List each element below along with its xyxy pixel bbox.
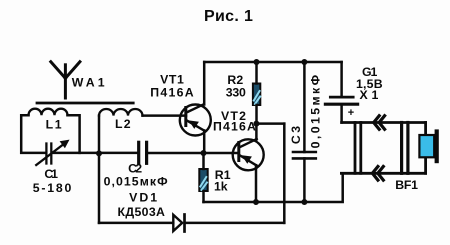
wire L2 to VT1 base: [143, 114, 187, 117]
top right rail: [342, 121, 426, 124]
L1 tank loop (left coil box): [21, 115, 79, 153]
bottom rail with diode: [99, 222, 284, 225]
earphone BF1 body: [402, 123, 426, 174]
wire C2 to VT2 base: [148, 152, 238, 155]
wire VT1 emitter down: [203, 131, 206, 154]
connector bars: [355, 123, 361, 174]
wire R2 top: [255, 62, 258, 84]
inductor L2 coil: [99, 109, 143, 116]
ferrite rod core: [37, 102, 133, 105]
junction dot VT2 collector node: [253, 121, 259, 127]
wire R1 top: [202, 153, 205, 169]
resistor R2: [253, 84, 260, 106]
top supply rail: [204, 61, 341, 64]
svg-text:WA1: WA1: [72, 75, 105, 89]
connector X1 chevron bottom: [372, 167, 383, 181]
wire C3 top: [303, 62, 306, 152]
transistor VT2: [233, 139, 264, 170]
svg-text:+: +: [348, 107, 354, 119]
bottom right rail: [341, 172, 425, 175]
svg-text:L2: L2: [115, 117, 131, 131]
svg-text:Рис. 1: Рис. 1: [204, 8, 253, 25]
wire VT1 collector up: [203, 62, 206, 105]
BF1 right plate: [435, 129, 439, 163]
wire VD1 leg down: [283, 124, 286, 223]
junction dot C3 bottom node: [301, 199, 307, 205]
resistor R1: [199, 169, 207, 191]
diode VD1: [173, 215, 184, 232]
junction dot VT2 emitter node: [253, 199, 259, 205]
wire L2 down leg: [98, 116, 101, 223]
junction dot top rail C3: [301, 59, 307, 65]
inductor L1 coil: [29, 109, 68, 115]
svg-text:BF1: BF1: [395, 178, 418, 192]
svg-text:C1: C1: [44, 167, 58, 181]
capacitor C2: [139, 142, 147, 163]
svg-text:5-180: 5-180: [33, 181, 72, 195]
svg-text:0,015мкФ: 0,015мкФ: [309, 74, 323, 148]
svg-text:1k: 1k: [214, 180, 228, 194]
svg-text:КД503A: КД503A: [117, 205, 165, 219]
antenna WA1: [51, 62, 80, 98]
svg-text:330: 330: [226, 85, 246, 99]
wire VT2 emitter down: [255, 165, 258, 202]
svg-text:П416A: П416A: [150, 85, 194, 99]
BF1 piezo element: [419, 135, 434, 157]
svg-text:VD1: VD1: [129, 191, 157, 205]
connector X1 chevron top: [374, 116, 385, 130]
svg-text:П416A: П416A: [213, 120, 256, 134]
transistor VT1: [180, 104, 211, 135]
wire C3 bottom: [303, 158, 306, 202]
wire mid rail left (box to C2): [80, 152, 137, 155]
wire R2 bottom to collector node: [255, 105, 258, 124]
variable capacitor C1: [36, 143, 65, 165]
wire VT2 collector up: [255, 124, 258, 140]
battery G1: [325, 62, 357, 123]
junction dot top rail R2: [254, 59, 260, 65]
wire collector node to VD1 leg: [256, 122, 284, 125]
junction dot VT1 emitter mid rail: [201, 150, 207, 156]
junction dot L2 mid rail: [96, 150, 102, 156]
svg-text:0,015мкФ: 0,015мкФ: [104, 174, 169, 188]
C1 arrow head: [60, 140, 70, 149]
capacitor C3: [293, 152, 316, 158]
wire R1 bottom: [202, 191, 205, 202]
emitter bottom wire: [204, 173, 343, 202]
